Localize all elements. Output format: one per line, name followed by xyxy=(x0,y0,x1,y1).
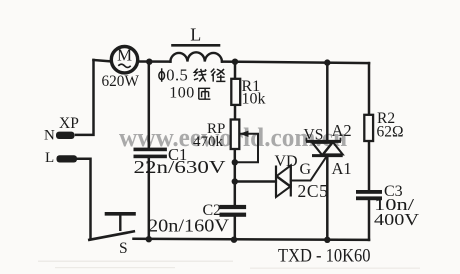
wire: R1 to RP xyxy=(234,105,237,120)
diac VD left bar xyxy=(275,166,277,198)
resistor R1 body xyxy=(231,79,240,105)
node: junction bottom triac xyxy=(324,237,330,243)
node: junction RP wiper return xyxy=(232,159,238,165)
node: junction VD branch xyxy=(232,178,238,184)
svg-text:TXD - 10K60: TXD - 10K60 xyxy=(278,246,371,267)
triac VS left triangle xyxy=(312,143,332,156)
wire: junction to diac VD xyxy=(235,180,276,183)
svg-text:N: N xyxy=(44,128,55,144)
wire: C1 column upper xyxy=(148,62,151,148)
svg-text:A2: A2 xyxy=(332,121,352,140)
svg-text:G: G xyxy=(300,161,312,178)
switch S lever xyxy=(89,231,134,239)
wire: C1 column lower xyxy=(148,158,151,240)
svg-text:470k: 470k xyxy=(193,134,224,150)
svg-text:22n/630V: 22n/630V xyxy=(134,157,226,177)
plug XP prong L xyxy=(57,155,78,162)
inductor L winding xyxy=(170,52,222,61)
triac VS bottom bar A1 xyxy=(312,154,343,157)
svg-text:XP: XP xyxy=(59,115,79,132)
wire: RP down through junctions to C2 xyxy=(234,149,237,205)
wire: R2 to C3 xyxy=(368,141,371,190)
svg-text:L: L xyxy=(45,150,54,166)
triac VS top bar A2 xyxy=(306,140,341,143)
inductor note CJK za xyxy=(198,88,210,99)
capacitor C3 plates xyxy=(356,190,382,194)
triac VS right triangle xyxy=(323,142,343,155)
motor ~ squiggle xyxy=(118,64,130,67)
diac VD right bar xyxy=(290,165,292,197)
wire: triac column top xyxy=(326,62,329,142)
svg-text:100: 100 xyxy=(169,85,195,102)
inductor note CJK xian xyxy=(194,69,206,82)
scan smudge bottom xyxy=(38,261,233,263)
node: junction inductor/R1 xyxy=(232,59,238,65)
svg-text:S: S xyxy=(119,240,128,257)
node: junction top/triac xyxy=(324,59,330,65)
wire: right column down to R2 xyxy=(368,63,371,115)
svg-text:62Ω: 62Ω xyxy=(377,123,404,140)
svg-text:M: M xyxy=(117,45,132,64)
wire: C2 to bottom rail xyxy=(234,217,237,240)
svg-text:0.5: 0.5 xyxy=(166,65,188,84)
svg-text:VS: VS xyxy=(304,126,324,143)
svg-text:620W: 620W xyxy=(102,73,140,90)
diac VD upper triangle xyxy=(277,165,291,186)
wire bottom rail xyxy=(134,239,370,240)
node: junction bottom C1 xyxy=(146,236,152,242)
resistor R2 body xyxy=(364,115,373,141)
inductor core bar xyxy=(173,44,220,47)
inductor note CJK jing xyxy=(211,69,226,82)
wire: motor right to inductor xyxy=(138,60,171,63)
capacitor C2 plates xyxy=(220,205,247,209)
svg-text:2C5: 2C5 xyxy=(298,181,329,201)
plug XP prong N xyxy=(56,132,75,139)
potentiometer RP wiper arrowhead xyxy=(240,131,249,137)
wire: L prong to switch column xyxy=(76,159,91,240)
node: junction motor/C1 xyxy=(146,59,152,65)
capacitor C1 plates xyxy=(134,148,167,152)
wire: right column C3 up xyxy=(368,200,371,240)
motor M1 circle xyxy=(111,47,137,73)
switch S plunger stem xyxy=(119,214,121,230)
wire: R1 column top xyxy=(234,62,237,79)
svg-text:L: L xyxy=(190,25,201,45)
inductor note phi symbol xyxy=(159,68,165,82)
triac VS top bar end ticks xyxy=(307,138,341,142)
svg-text:10k: 10k xyxy=(242,90,266,107)
potentiometer RP body xyxy=(231,120,240,150)
switch S plunger cap xyxy=(107,212,135,216)
svg-text:A1: A1 xyxy=(332,159,352,178)
diac VD lower triangle xyxy=(276,176,290,197)
wire: diac VD to triac gate G xyxy=(291,156,327,181)
svg-text:VD: VD xyxy=(275,153,298,170)
wire top: left corner to motor xyxy=(94,60,112,61)
wire: left column down from top corner xyxy=(76,60,94,135)
svg-text:400V: 400V xyxy=(374,210,420,229)
wire top: inductor to right corner xyxy=(222,62,369,64)
wire: triac column bottom xyxy=(326,156,329,240)
potentiometer RP wiper loop xyxy=(235,134,258,163)
node: junction bottom C2 xyxy=(231,237,237,243)
svg-text:20n/160V: 20n/160V xyxy=(148,216,229,236)
